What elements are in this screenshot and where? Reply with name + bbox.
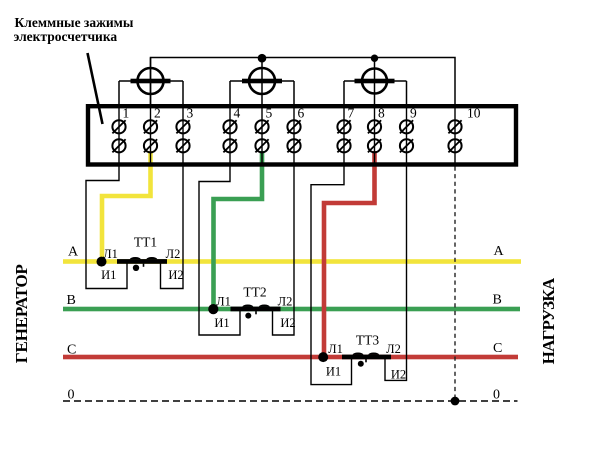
junction dot: phase B tap at TT2 L1 bbox=[208, 304, 218, 314]
junction dot on bus above coil 2 bbox=[258, 54, 267, 63]
wire: red jumper terminal 8 to phase C bbox=[324, 151, 375, 355]
polarity dot of TT2 secondary bbox=[245, 313, 251, 319]
phase C line (red) bbox=[63, 355, 518, 360]
svg-text:9: 9 bbox=[410, 106, 417, 121]
svg-text:Л1: Л1 bbox=[216, 294, 231, 308]
svg-text:0: 0 bbox=[68, 388, 75, 403]
svg-text:В: В bbox=[493, 293, 502, 308]
annotation: title text "Клеммные зажимы электросчетчика" bbox=[14, 15, 134, 44]
svg-text:ТТ3: ТТ3 bbox=[356, 333, 379, 348]
wire: coil2 center lead (terminal 5 up to bus) bbox=[261, 58, 263, 105]
svg-text:И2: И2 bbox=[391, 367, 406, 381]
junction dot on neutral at terminal 10 drop bbox=[451, 397, 460, 406]
terminal 10 of meter terminal block (screw contacts) bbox=[448, 106, 480, 165]
svg-text:В: В bbox=[67, 293, 76, 308]
svg-text:ТТ1: ТТ1 bbox=[134, 235, 157, 250]
junction dot: phase C tap at TT3 L1 bbox=[318, 352, 328, 362]
polarity dot of TT3 secondary bbox=[358, 361, 364, 367]
svg-text:1: 1 bbox=[123, 106, 130, 121]
svg-text:ТТ2: ТТ2 bbox=[243, 285, 266, 300]
svg-text:8: 8 bbox=[378, 106, 385, 121]
svg-text:Л2: Л2 bbox=[278, 294, 293, 308]
svg-text:ГЕНЕРАТОР: ГЕНЕРАТОР bbox=[12, 264, 31, 364]
svg-text:И2: И2 bbox=[168, 268, 183, 282]
polarity dot of TT1 secondary bbox=[133, 265, 139, 271]
svg-text:4: 4 bbox=[234, 106, 241, 121]
wire: terminal 6 to TT2 secondary I2 bbox=[273, 165, 295, 336]
current transformer TT3 primary bar with winding bumps bbox=[342, 353, 391, 363]
svg-text:10: 10 bbox=[467, 106, 481, 121]
svg-text:С: С bbox=[493, 341, 502, 356]
svg-text:0: 0 bbox=[493, 388, 500, 403]
svg-text:Л1: Л1 bbox=[103, 247, 118, 261]
wire: coil1 center lead (terminal 2 up to bus) bbox=[150, 58, 152, 105]
svg-text:5: 5 bbox=[266, 106, 273, 121]
svg-text:НАГРУЗКА: НАГРУЗКА bbox=[539, 277, 558, 364]
current transformer TT1 primary bar with winding bumps bbox=[117, 257, 167, 267]
annotation leader line (arrow to terminal box) bbox=[88, 53, 103, 124]
terminal box of the meter bbox=[88, 106, 516, 164]
junction dot on bus above coil 3 bbox=[371, 55, 378, 62]
wire: terminal 4 to TT2 secondary I1 bbox=[199, 165, 240, 336]
svg-text:И1: И1 bbox=[101, 268, 116, 282]
meter current coil 3 (circle with bar) bbox=[344, 69, 407, 105]
terminal 2 of meter terminal block (screw contacts) bbox=[144, 106, 161, 165]
terminal 7 of meter terminal block (screw contacts) bbox=[337, 106, 354, 165]
neutral line 0 (dashed) bbox=[63, 400, 518, 402]
svg-text:Л2: Л2 bbox=[166, 247, 181, 261]
svg-text:6: 6 bbox=[298, 106, 305, 121]
phase A line (yellow) bbox=[63, 259, 521, 264]
svg-text:Л2: Л2 bbox=[386, 342, 401, 356]
junction dot: phase A tap at TT1 L1 bbox=[97, 257, 107, 267]
wire: coil3 center lead (terminal 8 up to bus) bbox=[374, 58, 376, 105]
terminal 9 of meter terminal block (screw contacts) bbox=[400, 106, 417, 165]
svg-text:И2: И2 bbox=[280, 316, 295, 330]
wire: terminal 7 to TT3 secondary I1 bbox=[311, 165, 352, 385]
wire: terminal 10 to neutral (dashed) bbox=[454, 167, 456, 402]
current transformer TT2 primary bar with winding bumps bbox=[231, 305, 281, 315]
terminal 5 of meter terminal block (screw contacts) bbox=[255, 106, 272, 165]
terminal 3 of meter terminal block (screw contacts) bbox=[176, 106, 193, 165]
svg-text:С: С bbox=[67, 343, 76, 358]
svg-text:И1: И1 bbox=[214, 316, 229, 330]
svg-text:Л1: Л1 bbox=[328, 342, 343, 356]
terminal 8 of meter terminal block (screw contacts) bbox=[368, 106, 385, 165]
terminal 1 of meter terminal block (screw contacts) bbox=[112, 106, 129, 165]
meter current coil 2 (circle with bar) bbox=[230, 68, 294, 104]
phase B line (green) bbox=[63, 307, 520, 312]
svg-text:А: А bbox=[68, 245, 79, 260]
svg-text:7: 7 bbox=[348, 106, 355, 121]
svg-text:2: 2 bbox=[154, 106, 161, 121]
wire: terminal 1 to TT1 secondary I1 bbox=[86, 165, 127, 289]
wire: terminal 9 to TT3 secondary I2 bbox=[385, 165, 407, 381]
wire: yellow jumper terminal 2 to phase A bbox=[102, 151, 151, 259]
svg-text:3: 3 bbox=[187, 106, 194, 121]
wire: green jumper terminal 5 to phase B bbox=[214, 151, 263, 307]
wire: terminal 3 to TT1 secondary I2 bbox=[161, 165, 184, 289]
meter current coil 1 (circle with bar) bbox=[119, 68, 183, 104]
svg-text:А: А bbox=[494, 244, 505, 259]
terminal 6 of meter terminal block (screw contacts) bbox=[287, 106, 304, 165]
terminal 4 of meter terminal block (screw contacts) bbox=[223, 106, 240, 165]
svg-text:И1: И1 bbox=[326, 364, 341, 378]
svg-text:электросчетчика: электросчетчика bbox=[14, 29, 118, 44]
svg-text:Клеммные зажимы: Клеммные зажимы bbox=[15, 15, 134, 30]
top interconnect bus wire (voltage circuit) bbox=[151, 58, 456, 105]
